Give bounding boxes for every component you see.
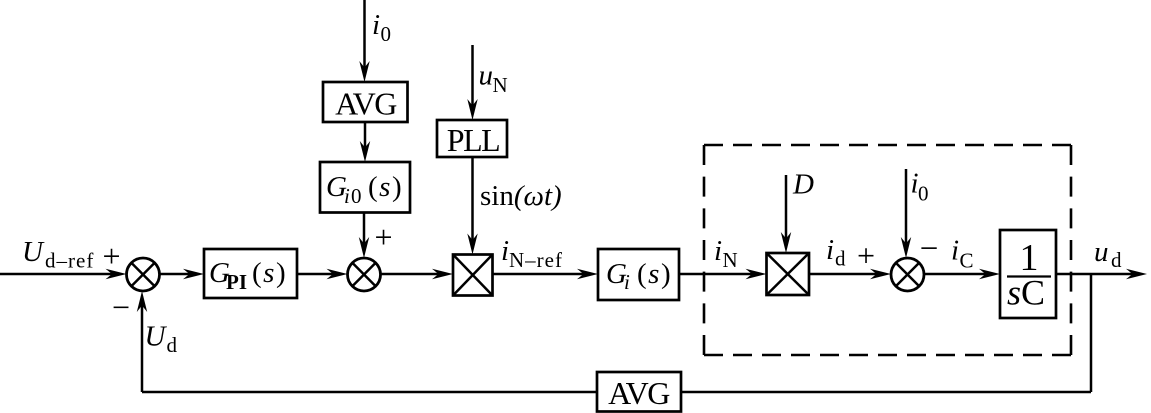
svg-text:i: i [344, 184, 350, 208]
svg-text:−: − [112, 289, 130, 325]
svg-text:u: u [1094, 236, 1109, 268]
svg-text:0: 0 [381, 22, 392, 46]
wire feedback left segment [142, 391, 597, 394]
label i_C [951, 235, 974, 273]
svg-text:U: U [145, 321, 168, 353]
label i_0 (right) [911, 168, 929, 206]
wire AVG to G_i0 [360, 122, 370, 162]
svg-text:d–ref: d–ref [45, 249, 94, 273]
block G_i0(s) [320, 162, 410, 213]
label u_N [479, 60, 508, 98]
summing junction S3 [891, 258, 924, 291]
svg-text:d: d [167, 333, 178, 357]
svg-text:u: u [479, 60, 494, 92]
svg-text:(s): (s) [368, 171, 403, 203]
summing junction S2 [348, 258, 381, 291]
label U_d-ref [22, 236, 94, 273]
label i_0 (top) [372, 9, 391, 46]
label i_d [826, 234, 846, 271]
svg-text:d: d [835, 247, 846, 271]
svg-text:U: U [22, 236, 45, 268]
svg-text:i: i [714, 235, 722, 267]
wire G_i to multiplier M2 [679, 269, 767, 279]
wire feedback up into S1 [137, 291, 147, 392]
wire D into M2 [781, 175, 791, 253]
block AVG (bottom) [597, 372, 681, 412]
svg-text:0: 0 [918, 182, 929, 206]
wire M1 to G_i [493, 269, 599, 279]
block 1/sC [1000, 230, 1056, 318]
svg-text:i: i [826, 234, 834, 266]
summing junction S1 [127, 258, 160, 291]
wire feedback right segment [681, 391, 1091, 394]
svg-text:−: − [920, 231, 939, 267]
label U_d [145, 321, 178, 358]
block G_i(s) [598, 249, 679, 300]
svg-text:N: N [723, 248, 738, 272]
svg-text:i: i [501, 235, 509, 267]
svg-text:AVG: AVG [608, 375, 670, 411]
svg-text:i: i [372, 9, 380, 41]
svg-text:D: D [792, 169, 814, 201]
label u_d [1094, 236, 1122, 272]
block PLL [437, 120, 507, 158]
wire i_0 into AVG [359, 0, 369, 82]
wire output u_d [1056, 269, 1147, 279]
wire S1 to G_PI [160, 269, 205, 279]
svg-text:(s): (s) [637, 258, 672, 290]
block G_PI(s) [204, 249, 297, 298]
wire G_PI to S2 [297, 269, 348, 279]
svg-text:PLL: PLL [447, 122, 499, 158]
svg-text:N–ref: N–ref [509, 248, 563, 272]
svg-text:PI: PI [226, 270, 247, 294]
multiplier M1 [453, 255, 493, 296]
svg-text:sin(ωt): sin(ωt) [480, 180, 562, 212]
wire i_0 into S3 [901, 169, 911, 258]
svg-text:N: N [493, 73, 508, 97]
wire G_i0 to S2 [359, 213, 369, 259]
svg-text:0: 0 [351, 184, 362, 208]
svg-text:+: + [857, 238, 875, 274]
svg-text:C: C [960, 249, 974, 273]
svg-text:AVG: AVG [335, 86, 397, 122]
wire S2 to multiplier M1 [381, 269, 454, 279]
wire input U_d-ref [0, 269, 127, 279]
svg-text:+: + [102, 238, 120, 274]
multiplier M2 [767, 253, 810, 295]
svg-text:d: d [1111, 248, 1122, 272]
svg-text:sC: sC [1007, 273, 1045, 313]
svg-text:+: + [374, 219, 392, 255]
svg-text:(s): (s) [252, 257, 287, 289]
label i_N-ref [501, 235, 563, 272]
svg-text:i: i [951, 235, 959, 267]
wire S3 to 1/sC [924, 269, 1000, 279]
wire M2 to S3 [809, 269, 891, 279]
dashed box [704, 145, 1071, 355]
wire feedback down from output [1090, 274, 1093, 392]
wire u_N into PLL [467, 45, 477, 120]
block AVG (top) [323, 82, 408, 122]
label i_N [714, 235, 738, 272]
svg-text:i: i [624, 270, 630, 294]
wire PLL to M1 [467, 157, 477, 255]
